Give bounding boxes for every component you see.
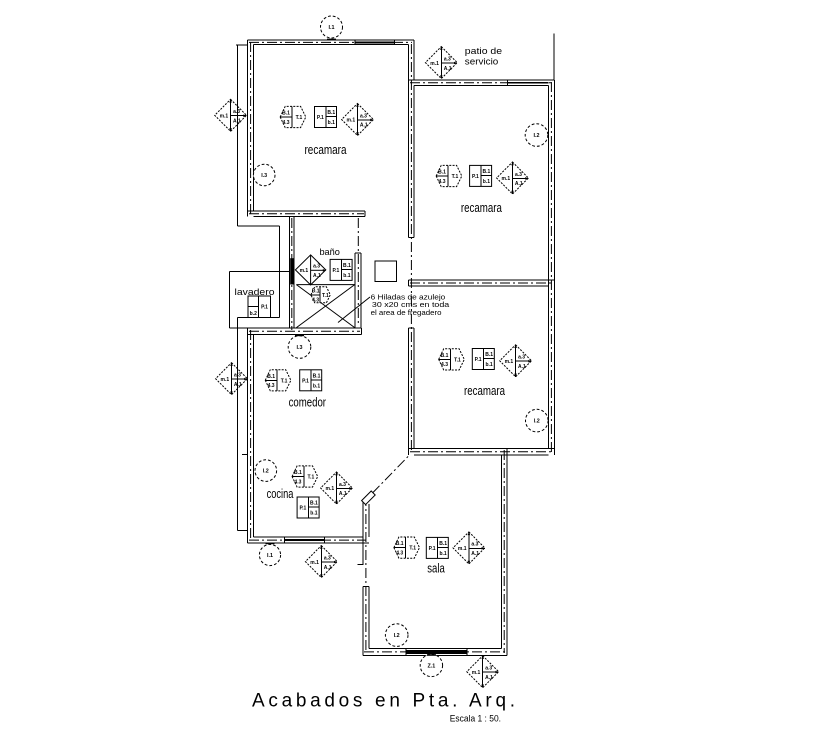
svg-text:I.3: I.3 xyxy=(297,345,303,351)
svg-text:I.3: I.3 xyxy=(261,173,267,179)
svg-text:cocina: cocina xyxy=(267,486,294,501)
svg-text:b.2: b.2 xyxy=(250,311,257,317)
svg-text:D.1: D.1 xyxy=(312,289,320,295)
svg-text:T.1: T.1 xyxy=(322,293,329,299)
svg-text:Z.1: Z.1 xyxy=(428,663,436,669)
svg-text:sala: sala xyxy=(427,561,445,576)
svg-text:el area de fregadero: el area de fregadero xyxy=(371,308,442,317)
svg-text:I.2: I.2 xyxy=(534,419,540,425)
svg-text:comedor: comedor xyxy=(289,395,327,410)
svg-text:m.1: m.1 xyxy=(300,268,309,274)
svg-text:I.2: I.2 xyxy=(394,633,400,639)
svg-text:recamara: recamara xyxy=(305,142,347,157)
svg-text:A.1: A.1 xyxy=(313,273,321,279)
svg-text:recamara: recamara xyxy=(464,383,505,398)
svg-text:Acabados en Pta. Arq.: Acabados en Pta. Arq. xyxy=(252,691,515,712)
svg-text:lavadero: lavadero xyxy=(235,287,275,298)
svg-text:recamara: recamara xyxy=(461,200,502,215)
svg-text:4.3: 4.3 xyxy=(312,297,319,303)
svg-text:a.3: a.3 xyxy=(313,264,320,270)
svg-text:I.2: I.2 xyxy=(263,469,269,475)
svg-text:I.1: I.1 xyxy=(267,553,273,559)
svg-text:I.2: I.2 xyxy=(534,133,540,139)
svg-text:baño: baño xyxy=(319,247,340,258)
svg-text:I.1: I.1 xyxy=(329,25,335,31)
svg-text:P.1: P.1 xyxy=(261,305,268,311)
svg-text:servicio: servicio xyxy=(465,56,499,67)
svg-text:Escala 1 : 50.: Escala 1 : 50. xyxy=(450,713,501,723)
